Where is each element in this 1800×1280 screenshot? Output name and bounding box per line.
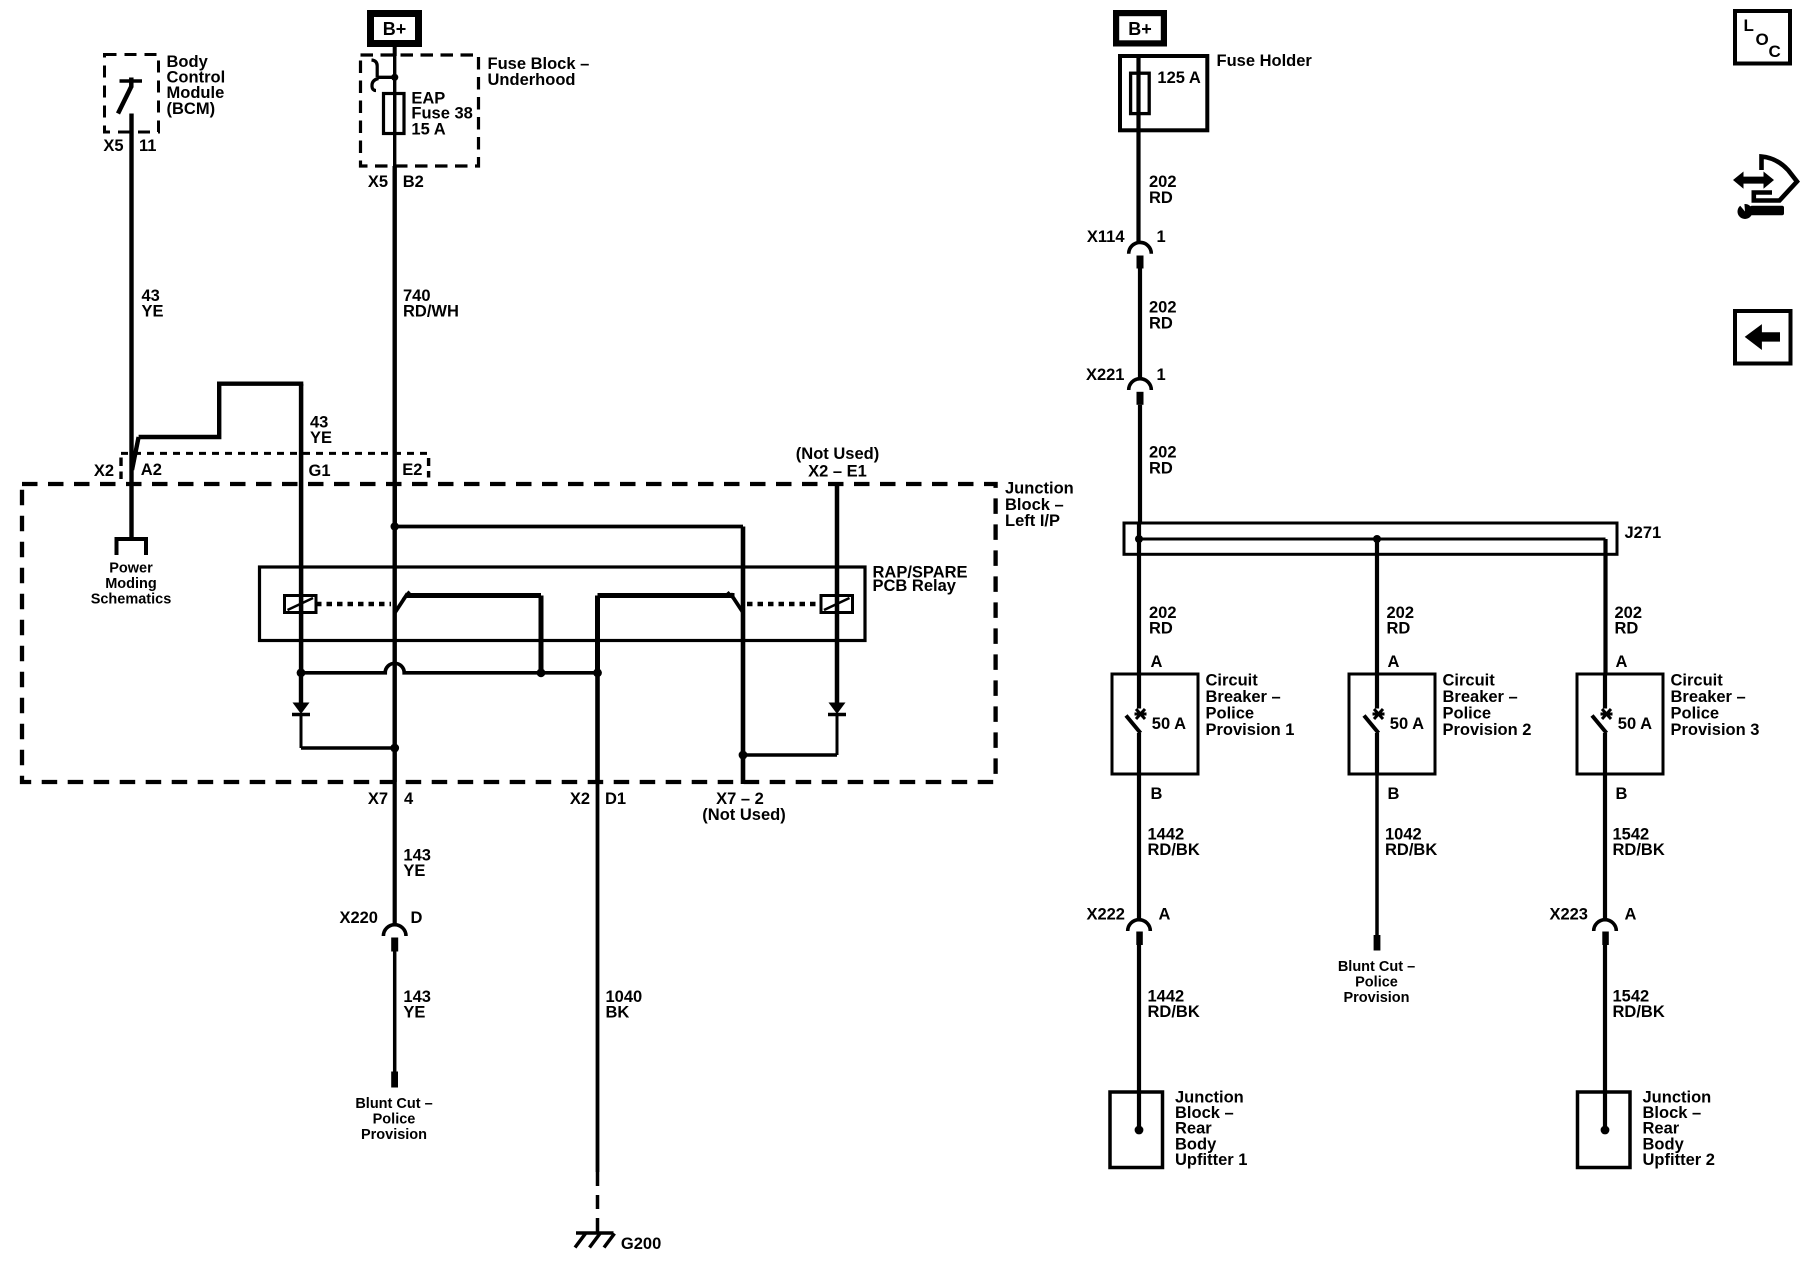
svg-text:Provision 3: Provision 3	[1671, 721, 1760, 739]
junction block - left I/P dashed box	[22, 484, 996, 782]
wire through fuse EAP	[393, 56, 396, 166]
svg-text:J271: J271	[1625, 524, 1662, 542]
svg-text:B2: B2	[403, 173, 424, 191]
svg-text:Moding: Moding	[105, 576, 157, 592]
icon back arrow box	[1735, 311, 1791, 364]
svg-text:A: A	[1616, 653, 1628, 671]
svg-text:50 A: 50 A	[1390, 715, 1424, 733]
bus tap symbol inside fuse block	[378, 76, 395, 79]
svg-text:YE: YE	[142, 303, 164, 321]
svg-text:A: A	[1159, 906, 1171, 924]
node: tap junction dot	[391, 74, 398, 81]
connector X222	[1128, 920, 1151, 931]
svg-text:YE: YE	[403, 1004, 425, 1022]
svg-text:Blunt Cut –: Blunt Cut –	[1338, 959, 1415, 975]
circuit breaker - police provision 1	[1112, 674, 1198, 774]
svg-text:Breaker –: Breaker –	[1206, 688, 1281, 706]
svg-text:Circuit: Circuit	[1671, 672, 1724, 690]
power symbol B+ (left)	[371, 14, 419, 44]
relay switch blade (right)	[731, 594, 744, 613]
svg-text:15 A: 15 A	[411, 121, 445, 139]
svg-text:X2: X2	[94, 462, 114, 480]
BCM driver symbol	[120, 79, 143, 82]
wire 143 YE lower	[393, 952, 397, 1072]
wire branch to right relay switch	[395, 525, 743, 529]
junction block - rear body upfitter 1	[1110, 1092, 1163, 1168]
svg-text:RD/BK: RD/BK	[1385, 841, 1437, 859]
svg-text:Circuit: Circuit	[1443, 672, 1496, 690]
wire 740 RD/WH	[393, 166, 397, 527]
svg-text:1: 1	[1157, 228, 1166, 246]
wire diode to X7-2 wire (right)	[743, 753, 837, 756]
circuit breaker - police provision 3	[1577, 674, 1663, 774]
wire 43 YE from BCM	[129, 114, 133, 538]
svg-text:YE: YE	[310, 429, 332, 447]
connector X220	[383, 925, 406, 936]
relay switch blade (left)	[395, 594, 408, 614]
svg-text:B: B	[1151, 785, 1163, 803]
svg-text:PCB Relay: PCB Relay	[873, 577, 957, 595]
svg-text:RD/BK: RD/BK	[1148, 1003, 1200, 1021]
wire bus drop 2	[1375, 539, 1379, 674]
junction bus J271	[1124, 523, 1617, 554]
svg-text:B: B	[1388, 785, 1400, 803]
fuse holder box	[1120, 56, 1207, 130]
svg-text:RD/BK: RD/BK	[1148, 841, 1200, 859]
svg-text:Breaker –: Breaker –	[1671, 688, 1746, 706]
dashed wire to ground	[596, 1172, 600, 1232]
wire 1442 RD/BK lower	[1137, 945, 1141, 1130]
svg-text:X7: X7	[368, 790, 388, 808]
svg-text:RD: RD	[1387, 620, 1411, 638]
svg-text:X5: X5	[103, 137, 123, 155]
svg-text:YE: YE	[403, 862, 425, 880]
svg-text:O: O	[1756, 30, 1769, 49]
svg-text:X5: X5	[368, 173, 388, 191]
icon navigation double arrow with wrench	[1733, 157, 1797, 220]
svg-text:125 A: 125 A	[1157, 69, 1201, 87]
node: branch dot on E2 wire	[391, 522, 399, 530]
svg-text:RD: RD	[1149, 620, 1173, 638]
svg-text:Provision: Provision	[1343, 990, 1409, 1006]
svg-text:Upfitter 1: Upfitter 1	[1175, 1151, 1247, 1169]
svg-text:RD/BK: RD/BK	[1613, 1003, 1665, 1021]
svg-text:A: A	[1151, 653, 1163, 671]
wire 1042 RD/BK	[1375, 774, 1379, 935]
connector X221	[1129, 379, 1152, 390]
svg-text:Police: Police	[1443, 705, 1492, 723]
diode (left)	[299, 673, 303, 703]
svg-text:Power: Power	[109, 561, 153, 577]
wire 1040 BK to ground	[596, 782, 600, 1172]
power moding schematics connector	[117, 539, 147, 555]
svg-text:(Not Used): (Not Used)	[796, 445, 879, 463]
wire bus drop 3	[1603, 539, 1607, 674]
svg-text:A: A	[1388, 653, 1400, 671]
svg-text:1: 1	[1157, 366, 1166, 384]
svg-text:4: 4	[404, 790, 414, 808]
svg-text:Provision: Provision	[361, 1127, 427, 1143]
svg-text:X2 – E1: X2 – E1	[808, 463, 867, 481]
svg-text:Police: Police	[1355, 975, 1398, 991]
wire X7-2 feed	[741, 527, 746, 785]
svg-text:E2: E2	[402, 461, 422, 479]
svg-text:Blunt Cut –: Blunt Cut –	[355, 1096, 432, 1112]
svg-text:X220: X220	[339, 909, 378, 927]
svg-text:L: L	[1744, 16, 1754, 35]
svg-text:Upfitter 2: Upfitter 2	[1643, 1151, 1715, 1169]
coil link dotted (right)	[747, 602, 821, 607]
ground G200	[576, 1231, 614, 1235]
wire B+ to fuse block	[393, 47, 397, 56]
svg-text:Provision 2: Provision 2	[1443, 721, 1532, 739]
svg-text:Breaker –: Breaker –	[1443, 688, 1518, 706]
svg-text:B+: B+	[383, 19, 407, 39]
svg-text:G1: G1	[309, 462, 331, 480]
svg-text:B+: B+	[1128, 19, 1152, 39]
svg-text:RD: RD	[1149, 315, 1173, 333]
relay coil (left)	[285, 596, 317, 613]
power symbol B+ (right)	[1116, 13, 1164, 43]
svg-text:Police: Police	[1206, 705, 1255, 723]
svg-text:(Not Used): (Not Used)	[702, 806, 785, 824]
svg-text:B: B	[1616, 785, 1628, 803]
svg-text:Underhood: Underhood	[488, 71, 576, 89]
blunt cut terminal (left)	[391, 1072, 398, 1088]
svg-text:BK: BK	[606, 1004, 630, 1022]
fuse EAP Fuse 38 15A	[384, 94, 405, 134]
svg-text:RD/WH: RD/WH	[403, 303, 459, 321]
node dots on link bar	[297, 668, 306, 677]
connector X2 dotted line	[121, 452, 428, 455]
wire 1442 RD/BK upper	[1137, 774, 1141, 920]
relay contact bar (right)	[598, 593, 735, 598]
svg-text:A: A	[1625, 906, 1637, 924]
svg-text:X221: X221	[1086, 366, 1125, 384]
svg-text:Left I/P: Left I/P	[1005, 512, 1060, 530]
connector X114	[1129, 242, 1152, 253]
connector X2 right cap	[427, 458, 430, 478]
svg-text:RD: RD	[1149, 189, 1173, 207]
svg-text:Provision 1: Provision 1	[1206, 721, 1295, 739]
svg-text:X222: X222	[1086, 906, 1125, 924]
svg-text:Fuse Holder: Fuse Holder	[1217, 52, 1313, 70]
svg-text:X114: X114	[1087, 228, 1125, 246]
wire 1542 RD/BK lower	[1603, 945, 1607, 1130]
svg-text:50 A: 50 A	[1618, 715, 1652, 733]
svg-text:Circuit: Circuit	[1206, 672, 1259, 690]
coil link dotted (left)	[316, 602, 391, 607]
wire 43 YE stepped branch to G1	[132, 437, 139, 470]
node dots on J271 bus	[1135, 535, 1143, 543]
svg-text:Junction: Junction	[1005, 480, 1074, 498]
svg-text:(BCM): (BCM)	[167, 100, 216, 118]
fuse 125 A	[1131, 73, 1150, 113]
wire diode to X7-4 wire (left)	[301, 746, 395, 749]
svg-text:A2: A2	[141, 461, 162, 479]
svg-text:RD: RD	[1149, 460, 1173, 478]
wire X2-D1 down from link bar	[595, 673, 600, 782]
connector X2 left cap	[119, 458, 122, 480]
wire E2 feed down through relay	[393, 484, 397, 782]
fuse block - underhood dashed box	[361, 55, 479, 166]
connector X223	[1594, 920, 1617, 931]
svg-text:C: C	[1769, 42, 1781, 61]
svg-text:X2: X2	[570, 790, 590, 808]
svg-text:Police: Police	[1671, 705, 1720, 723]
svg-text:Police: Police	[373, 1112, 416, 1128]
wire bus drop 1	[1137, 523, 1141, 674]
svg-text:50 A: 50 A	[1152, 715, 1186, 733]
wire 1542 RD/BK upper	[1603, 774, 1607, 920]
svg-text:D: D	[411, 909, 423, 927]
wire X2-E1 feed to right coil	[835, 484, 840, 703]
svg-text:D1: D1	[605, 790, 626, 808]
body control module (BCM) dashed box	[105, 55, 159, 133]
circuit breaker - police provision 2	[1349, 674, 1435, 774]
relay contact bar (left)	[406, 593, 541, 598]
svg-text:11: 11	[139, 137, 156, 155]
svg-text:RD/BK: RD/BK	[1613, 841, 1665, 859]
wire 202 RD (3)	[1138, 405, 1142, 523]
svg-text:RD: RD	[1615, 620, 1639, 638]
diode (right)	[829, 703, 846, 715]
wire 202 RD (2)	[1138, 269, 1142, 379]
svg-text:Schematics: Schematics	[91, 592, 172, 608]
blunt cut terminal (middle)	[1374, 935, 1381, 951]
RAP/SPARE PCB relay box	[260, 567, 866, 641]
wire through fuse holder	[1136, 56, 1140, 242]
wire 143 YE upper	[393, 782, 397, 925]
junction block - rear body upfitter 2	[1578, 1092, 1631, 1168]
svg-text:G200: G200	[621, 1235, 661, 1253]
icon LOC box	[1735, 11, 1790, 64]
wire: link bar with hop	[301, 663, 598, 673]
svg-text:X223: X223	[1549, 906, 1588, 924]
relay coil (right)	[821, 596, 853, 613]
